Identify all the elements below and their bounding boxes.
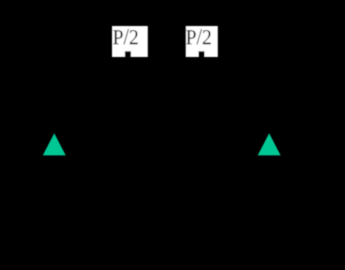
beam (black on black as in source figure) [30, 118, 316, 132]
load label P/2 left [113, 29, 137, 44]
load arrow left (shaft top visible as notch in label box) [125, 51, 131, 57]
load arrow right (shaft top visible as notch in label box) [199, 51, 205, 57]
label box P/2 right [186, 26, 218, 57]
label box P/2 left [112, 26, 148, 57]
support triangle left [43, 133, 66, 155]
load label P/2 right [186, 29, 210, 44]
support triangle right [258, 133, 281, 155]
